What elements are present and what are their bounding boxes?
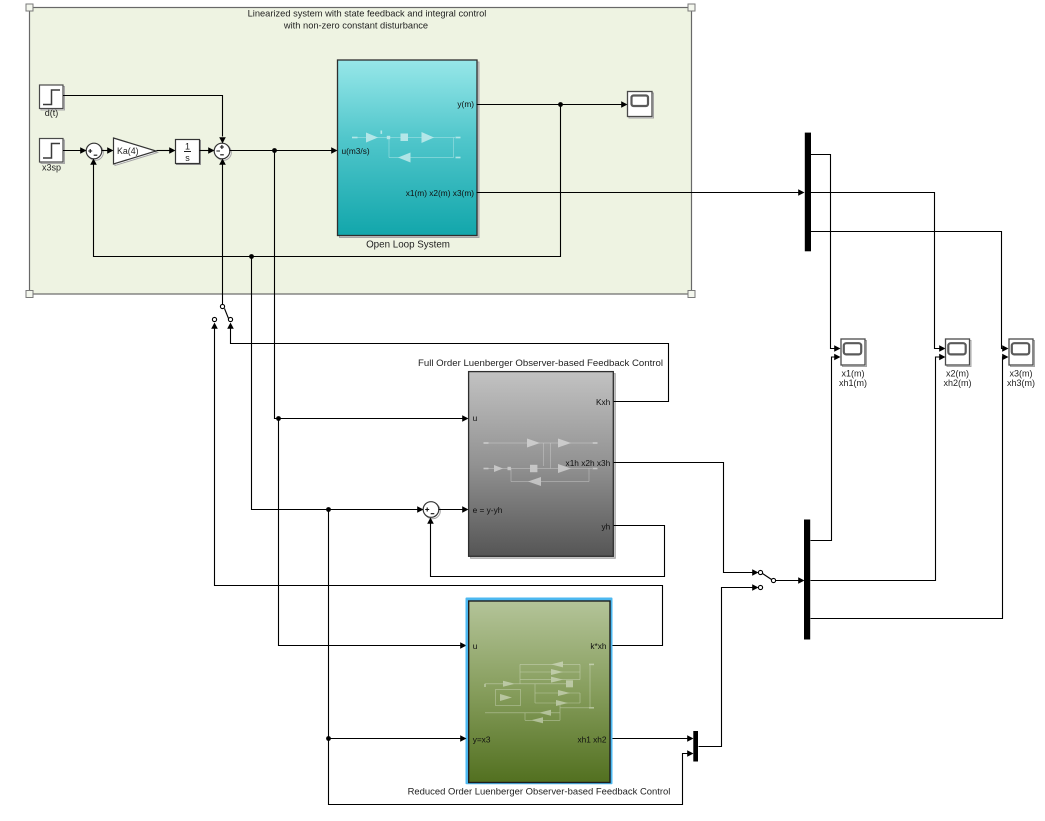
step source d(t) — [40, 85, 65, 118]
wire integrator to sum2 — [200, 150, 209, 152]
subsystem full order observer — [471, 374, 616, 559]
svg-text:xh1(m): xh1(m) — [839, 378, 867, 388]
subsystem reduced order observer — [469, 601, 610, 783]
sum junction 1 — [86, 143, 103, 160]
wire gain to integrator — [157, 150, 171, 152]
svg-text:Linearized system with state f: Linearized system with state feedback an… — [248, 9, 487, 19]
node u to reduced branch — [276, 416, 281, 421]
svg-text:x1(m) x2(m) x3(m): x1(m) x2(m) x3(m) — [406, 188, 474, 198]
wire demux1 out2 to scope B — [811, 193, 941, 349]
svg-text:1: 1 — [185, 142, 190, 152]
selection handle bottom-right — [688, 291, 695, 298]
integrator 1/s — [176, 140, 201, 165]
wire mux3 to switch2 bottom — [699, 588, 753, 747]
gain Ka(4) — [114, 138, 158, 166]
svg-text:yh: yh — [602, 521, 611, 531]
svg-text:xh1 xh2: xh1 xh2 — [577, 735, 606, 745]
svg-text:k*xh: k*xh — [590, 641, 607, 651]
wire sum2 to u(m3/s) — [230, 150, 333, 152]
scope x3(m) xh3(m) — [1007, 339, 1035, 388]
wire d(t) to sum2 top — [63, 96, 223, 137]
svg-text:Reduced Order Luenberger Obser: Reduced Order Luenberger Observer-based … — [408, 787, 671, 798]
svg-text:s: s — [185, 153, 190, 163]
svg-text:d(t): d(t) — [45, 108, 59, 118]
node u branch — [272, 148, 277, 153]
linearized system area — [30, 8, 692, 295]
svg-text:y(m): y(m) — [457, 99, 474, 109]
wire demux2 out1 to scope A — [811, 357, 837, 541]
wire e-sum to e port — [439, 509, 463, 511]
node y to reduced branch — [326, 507, 331, 512]
svg-text:with non-zero constant disturb: with non-zero constant disturbance — [283, 21, 428, 31]
wire x1h x2h x3h to switch2 top — [614, 463, 753, 573]
demux 2 — [804, 520, 810, 640]
wire demux2 out2 to scope B — [811, 357, 941, 581]
svg-text:Open Loop System: Open Loop System — [366, 240, 450, 251]
wire yh to e-sum bottom — [431, 524, 665, 577]
svg-text:Ka(4): Ka(4) — [117, 146, 139, 156]
svg-text:y=x3: y=x3 — [473, 735, 491, 745]
subsystem Open Loop System — [338, 60, 480, 251]
svg-text:u(m3/s): u(m3/s) — [342, 146, 370, 156]
scope x2(m) xh2(m) — [943, 339, 971, 388]
svg-text:u: u — [473, 641, 478, 651]
wire sum1 to gain — [102, 150, 109, 152]
selection handle top-right — [688, 4, 695, 11]
wire y to e-sum — [252, 257, 419, 510]
mux 3 — [693, 731, 698, 762]
selection handle bottom-left — [26, 291, 33, 298]
wire demux1 out1 to scope A — [811, 155, 837, 349]
svg-text:u: u — [473, 413, 478, 423]
manual switch 1 — [220, 304, 224, 308]
wire u branch to full order u — [275, 151, 463, 419]
svg-text:x3sp: x3sp — [42, 163, 61, 173]
wire switch2 to demux2 — [776, 580, 799, 582]
step source x3sp — [40, 139, 65, 173]
sum junction 2 — [214, 143, 231, 160]
wire y=x3 to mux3 bottom — [329, 739, 689, 805]
manual switch 2 — [699, 155, 1009, 747]
wire Kxh to switch1 right — [231, 329, 669, 402]
wire u branch to reduced order u — [279, 419, 461, 646]
preview sketch — [484, 439, 598, 487]
preview sketch — [485, 661, 594, 723]
svg-text:x1h x2h x3h: x1h x2h x3h — [566, 458, 611, 468]
svg-text:xh2(m): xh2(m) — [943, 378, 971, 388]
svg-text:e = y-yh: e = y-yh — [473, 505, 503, 515]
wire demux2 out3 to scope C — [811, 357, 1005, 619]
node y to observers branch — [249, 254, 254, 259]
preview sketch — [352, 131, 461, 163]
scope x1(m) xh1(m) — [839, 339, 867, 388]
node y branch — [558, 102, 563, 107]
wire demux1 out3 to scope C — [811, 232, 1005, 349]
wire x3sp to sum1 — [63, 150, 81, 152]
sum junction e — [423, 502, 440, 519]
wire x1(m)x2(m)x3(m) to demux — [477, 192, 799, 194]
node y=x3 to mux branch — [326, 736, 331, 741]
wire k*xh to switch1 left — [215, 329, 663, 646]
selection highlight — [466, 598, 613, 785]
wire switch1 output to sum2 bottom — [222, 165, 224, 305]
demux 1 — [805, 133, 811, 252]
wire y(m) to scope — [477, 104, 623, 106]
wire xh1 xh2 to mux3 — [613, 738, 689, 740]
selection handle top-left — [26, 4, 33, 11]
wire y feedback to sum1 bottom — [94, 105, 561, 257]
svg-text:Full Order Luenberger Observer: Full Order Luenberger Observer-based Fee… — [418, 358, 663, 369]
svg-text:xh3(m): xh3(m) — [1007, 378, 1035, 388]
svg-text:Kxh: Kxh — [596, 397, 611, 407]
wire y branch to y=x3 — [329, 510, 461, 739]
scope y(m) — [628, 92, 654, 119]
